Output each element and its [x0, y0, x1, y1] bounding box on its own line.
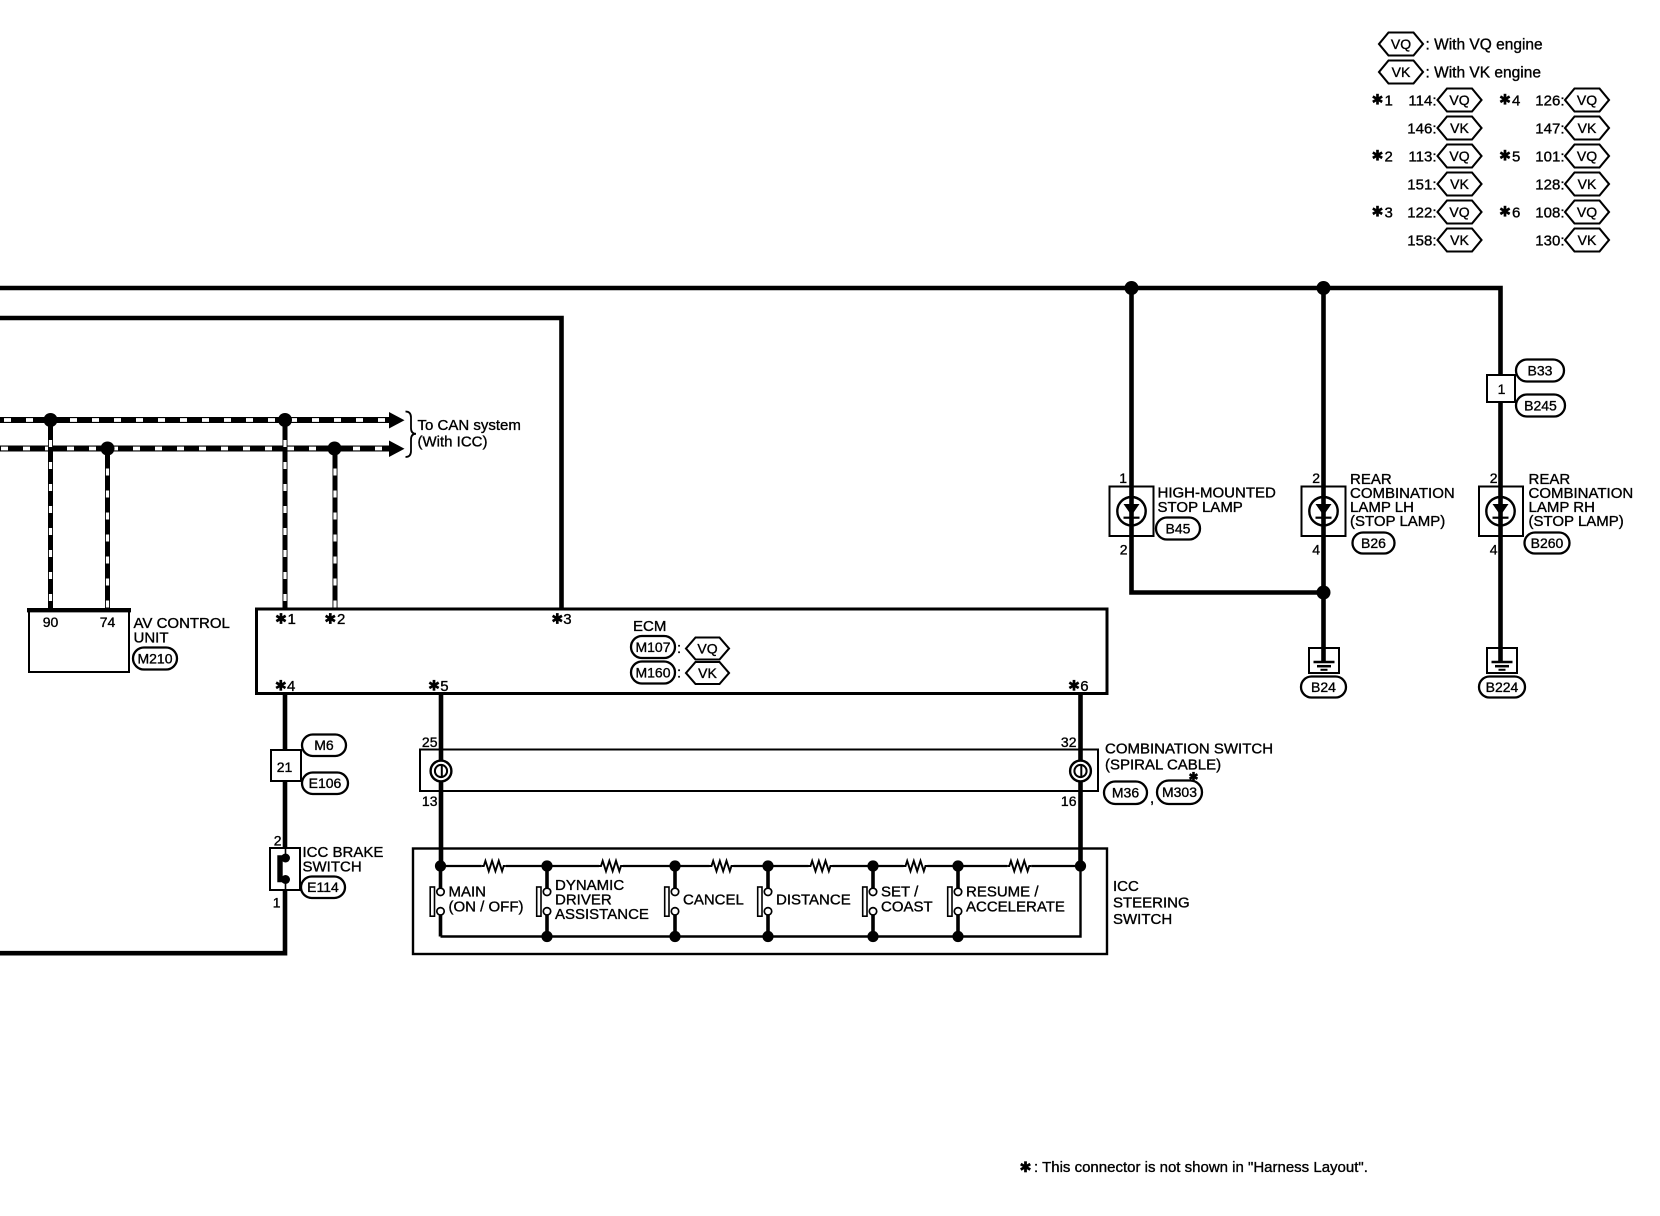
legend row 122/108 [1373, 206, 1382, 217]
svg-text:(ON / OFF): (ON / OFF) [449, 899, 524, 916]
svg-text:128:: 128: [1535, 176, 1564, 193]
svg-text:M160: M160 [635, 664, 670, 680]
svg-text:To CAN system: To CAN system [418, 417, 521, 434]
junction rail/rear lamp LH [1317, 281, 1331, 295]
svg-text:114:: 114: [1408, 92, 1436, 109]
svg-text:UNIT: UNIT [134, 630, 169, 647]
svg-text:2: 2 [274, 833, 282, 849]
junction bottom bus x=873 [867, 931, 878, 942]
svg-text:B33: B33 [1528, 362, 1553, 378]
wire ECM *4 to ICC brake switch [283, 694, 288, 850]
svg-text:3: 3 [563, 611, 571, 628]
svg-text:5: 5 [440, 678, 448, 695]
svg-text:VK: VK [1450, 120, 1469, 136]
wire ECM *1 drop (dashed) [283, 420, 288, 609]
svg-text:90: 90 [43, 614, 59, 630]
junction top bus / pin 16 wire [1075, 860, 1086, 871]
wire top bus segment 6b [1031, 865, 1080, 867]
spiral cable coil 32-16 [1070, 761, 1091, 782]
switch MAIN [439, 866, 443, 888]
svg-text:13: 13 [422, 793, 438, 809]
svg-text:158:: 158: [1407, 232, 1436, 249]
switch SET / [871, 866, 875, 888]
svg-text:VK: VK [698, 665, 717, 681]
svg-text:130:: 130: [1535, 232, 1564, 249]
wire top bus segment 4b [833, 865, 874, 867]
svg-text:(With ICC): (With ICC) [418, 434, 488, 451]
svg-text:122:: 122: [1407, 204, 1436, 221]
svg-text:VQ: VQ [1391, 36, 1411, 52]
switch CANCEL [673, 866, 677, 888]
junction top bus x=873 [867, 860, 878, 871]
svg-text:ACCELERATE: ACCELERATE [966, 899, 1065, 916]
svg-text::: : [677, 665, 681, 682]
junction top bus x=958 [952, 860, 963, 871]
svg-text:113:: 113: [1408, 148, 1436, 165]
connector B24 [1301, 677, 1346, 698]
junction top bus x=675 [669, 860, 680, 871]
legend row 113/101 [1373, 150, 1382, 161]
resistor R6 [1007, 861, 1031, 871]
svg-text:ICC: ICC [1113, 878, 1139, 895]
svg-text:E114: E114 [307, 879, 339, 895]
svg-text:32: 32 [1061, 734, 1077, 750]
resistor R1 [482, 861, 506, 871]
connector M210 [133, 648, 177, 670]
svg-text:B45: B45 [1166, 520, 1191, 536]
wire rear combination lamp LH to ground B24 [1321, 536, 1326, 662]
pin *1 label [276, 613, 285, 624]
wire high-mounted lamp lower jumper [1132, 536, 1324, 593]
combination switch spiral cable box [420, 750, 1098, 792]
svg-text:101:: 101: [1535, 148, 1564, 165]
connector B33 [1516, 360, 1564, 382]
switch DYNAMIC [545, 866, 549, 888]
svg-text:2: 2 [1120, 542, 1128, 558]
svg-text:COMBINATION SWITCH: COMBINATION SWITCH [1105, 741, 1273, 758]
svg-text:25: 25 [422, 734, 438, 750]
svg-text:108:: 108: [1535, 204, 1564, 221]
svg-text:: With VK engine: : With VK engine [1426, 65, 1541, 82]
svg-text:DISTANCE: DISTANCE [776, 892, 851, 909]
wire top bus segment 5 [873, 865, 904, 867]
connector B26 [1353, 533, 1395, 554]
legend VK hexagon definition [1379, 61, 1423, 84]
pin *3 label [553, 613, 562, 624]
resistor R2 [599, 861, 623, 871]
rear combination lamp RH B260 [1479, 487, 1523, 537]
wire ECM *2 drop (dashed) [333, 449, 338, 610]
connector E114 [301, 877, 345, 899]
svg-text:VK: VK [1450, 232, 1469, 248]
wire top bus segment 1 [441, 865, 482, 867]
svg-text:VK: VK [1578, 120, 1597, 136]
wire top bus segment 4 [768, 865, 809, 867]
svg-text:: With VQ engine: : With VQ engine [1426, 37, 1543, 54]
svg-text:VK: VK [1578, 232, 1597, 248]
star M303 footnote mark [1190, 772, 1198, 781]
connector M36 [1104, 782, 1147, 805]
svg-text:M107: M107 [635, 639, 670, 655]
svg-text:VQ: VQ [1577, 204, 1597, 220]
arrow CAN-L to CAN system [389, 441, 405, 458]
svg-text:1: 1 [288, 611, 296, 628]
svg-text:VQ: VQ [697, 640, 717, 656]
wire top bus segment 3b [734, 865, 769, 867]
svg-text::: : [677, 640, 681, 657]
footnote star [1021, 1161, 1031, 1172]
wire AV control unit pin 74 drop (dashed) [105, 449, 110, 610]
svg-text:6: 6 [1080, 678, 1088, 695]
ICC brake switch box [270, 848, 300, 890]
svg-text:ASSISTANCE: ASSISTANCE [555, 906, 649, 923]
connector E106 [302, 773, 348, 795]
wire rear combination lamp RH to ground B224 [1498, 486, 1503, 662]
svg-text:ECM: ECM [633, 618, 666, 635]
resistor R4 [809, 861, 833, 871]
connector M6 [302, 735, 346, 757]
svg-text:SWITCH: SWITCH [1113, 911, 1172, 928]
ground B224 [1487, 648, 1517, 673]
svg-text:VQ: VQ [1449, 204, 1469, 220]
pin *5 label [429, 680, 438, 691]
svg-text:VK: VK [1578, 176, 1597, 192]
junction CAN-L / pin 74 [101, 442, 115, 456]
svg-text:146:: 146: [1407, 120, 1436, 137]
svg-text:2: 2 [1312, 470, 1320, 486]
junction top bus x=440 [435, 860, 446, 871]
svg-text:1: 1 [1385, 92, 1393, 109]
wire AV control unit pin 90 drop (dashed) [48, 420, 53, 609]
svg-text:VQ: VQ [1449, 92, 1469, 108]
svg-text:6: 6 [1512, 204, 1520, 221]
svg-text:,: , [1150, 790, 1154, 807]
wire stop-lamp feed rail (top) [0, 288, 1501, 486]
arrow CAN-H to CAN system [389, 412, 405, 429]
svg-text:M303: M303 [1162, 784, 1197, 800]
svg-text:M210: M210 [137, 650, 172, 666]
connector M303 [1157, 781, 1202, 805]
wire top bus segment 1b [506, 865, 547, 867]
svg-text:2: 2 [337, 611, 345, 628]
junction CAN-H / ECM *1 [278, 413, 292, 427]
connector M107 (VQ) [631, 636, 675, 658]
svg-text:VQ: VQ [1577, 92, 1597, 108]
svg-text:74: 74 [100, 614, 116, 630]
svg-text:147:: 147: [1535, 120, 1564, 137]
svg-text:3: 3 [1385, 204, 1393, 221]
wire bottom return bus [441, 866, 1081, 937]
svg-text:1: 1 [1498, 381, 1506, 397]
svg-text:VK: VK [1450, 176, 1469, 192]
svg-text:16: 16 [1061, 793, 1077, 809]
wire top bus segment 2 [547, 865, 599, 867]
svg-text:5: 5 [1512, 148, 1520, 165]
svg-text:4: 4 [1490, 542, 1498, 558]
junction top bus x=547 [541, 860, 552, 871]
junction CAN-L / ECM *2 [328, 442, 342, 456]
junction bottom bus x=768 [762, 931, 773, 942]
svg-text:VK: VK [1392, 64, 1411, 80]
ICC brake switch contact [285, 848, 287, 855]
junction bottom bus x=958 [952, 931, 963, 942]
wire CAN-H bus (dashed) [0, 417, 391, 423]
wire rear combination lamp LH drop [1321, 286, 1326, 536]
junction bottom bus x=547 [541, 931, 552, 942]
svg-text:1: 1 [273, 895, 281, 911]
svg-text:B260: B260 [1531, 535, 1564, 551]
svg-text:(SPIRAL CABLE): (SPIRAL CABLE) [1105, 757, 1221, 774]
switch RESUME / [956, 866, 960, 888]
svg-text:151:: 151: [1407, 176, 1436, 193]
brace To CAN system [406, 412, 417, 458]
ICC steering switch box [413, 849, 1107, 955]
legend VQ hexagon definition [1379, 33, 1423, 56]
svg-text:CANCEL: CANCEL [683, 892, 744, 909]
wire ICC brake switch pin 1 to left edge [0, 890, 285, 953]
pin *6 label [1069, 680, 1078, 691]
svg-text:B224: B224 [1486, 679, 1519, 695]
wire top bus segment 5b [928, 865, 959, 867]
ground B24 [1309, 648, 1339, 673]
svg-text:4: 4 [1312, 542, 1320, 558]
svg-text:126:: 126: [1535, 92, 1564, 109]
svg-text:1: 1 [1119, 470, 1127, 486]
svg-text:4: 4 [287, 678, 295, 695]
resistor R3 [710, 861, 734, 871]
svg-text:VQ: VQ [1449, 148, 1469, 164]
wire high-mounted stop lamp drop [1129, 286, 1134, 536]
svg-text:: This connector is not shown: : This connector is not shown in "Harnes… [1034, 1159, 1368, 1176]
svg-text:21: 21 [277, 759, 293, 775]
junction rail/high-mounted lamp [1125, 281, 1139, 295]
wire top bus segment 2b [623, 865, 675, 867]
connector B260 [1525, 533, 1570, 554]
svg-text:STEERING: STEERING [1113, 895, 1190, 912]
svg-text:(STOP LAMP): (STOP LAMP) [1350, 513, 1445, 530]
connector 21 (M6/E106) box [271, 750, 301, 781]
switch DISTANCE [766, 866, 770, 888]
junction top bus x=768 [762, 860, 773, 871]
inline connector box pin 1 [1487, 375, 1515, 402]
svg-text:4: 4 [1512, 92, 1520, 109]
svg-text:STOP LAMP: STOP LAMP [1158, 499, 1243, 516]
svg-text:B245: B245 [1524, 397, 1557, 413]
junction bottom bus x=675 [669, 931, 680, 942]
wire top bus segment 6 [958, 865, 1007, 867]
connector M160 (VK) [631, 662, 675, 684]
connector B224 [1479, 677, 1525, 698]
connector B45 [1156, 518, 1200, 540]
wire top bus segment 3 [675, 865, 710, 867]
junction CAN-H / pin 90 [44, 413, 58, 427]
connector B245 [1516, 395, 1565, 417]
svg-text:B26: B26 [1361, 535, 1386, 551]
svg-text:M6: M6 [314, 737, 334, 753]
AV control unit box [29, 610, 129, 673]
svg-text:(STOP LAMP): (STOP LAMP) [1529, 513, 1624, 530]
pin *4 label [276, 680, 285, 691]
wire ECM *6 to spiral cable 32 [1078, 694, 1083, 867]
wire ECM *5 to spiral cable 25 [439, 694, 444, 867]
svg-text:B24: B24 [1311, 679, 1336, 695]
svg-text:SWITCH: SWITCH [303, 859, 362, 876]
svg-text:2: 2 [1385, 148, 1393, 165]
high-mounted stop lamp B45 [1110, 487, 1154, 537]
junction LH lamp / high-mounted ground jumper [1317, 586, 1331, 600]
rear combination lamp LH B26 [1302, 487, 1346, 537]
svg-text:VQ: VQ [1577, 148, 1597, 164]
ECM box [257, 609, 1108, 694]
svg-text:2: 2 [1490, 470, 1498, 486]
wire CAN-L bus (dashed) [0, 446, 391, 452]
spiral cable coil 25-13 [431, 761, 452, 782]
legend row 114/126 [1373, 94, 1382, 105]
svg-text:COAST: COAST [881, 899, 933, 916]
svg-text:M36: M36 [1112, 785, 1139, 801]
svg-text:E106: E106 [309, 775, 342, 791]
resistor R5 [904, 861, 928, 871]
wire stop lamp switch output rail to ECM *3 [0, 318, 562, 609]
pin *2 label [326, 613, 335, 624]
